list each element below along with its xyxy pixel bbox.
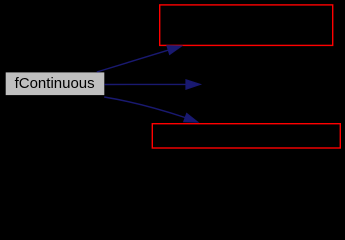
node fContinuous (current node, gray fill) (6, 72, 105, 95)
node top (red border, label invisible on black) (160, 5, 333, 46)
svg-text:fContinuous: fContinuous (15, 75, 95, 92)
edge A: fContinuous -> top node (97, 46, 182, 72)
call graph canvas (0, 0, 345, 154)
edge B: fContinuous -> middle (invisible) node (104, 80, 200, 90)
node bottom (red border, label invisible on black) (152, 124, 340, 148)
edge C: fContinuous -> bottom node (104, 97, 198, 122)
